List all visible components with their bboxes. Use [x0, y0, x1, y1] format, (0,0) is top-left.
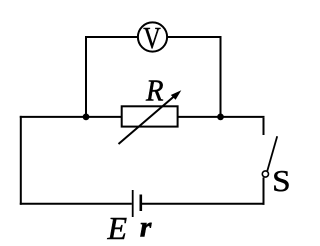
wire bottom right segment [142, 203, 265, 205]
wire voltmeter top left segment [85, 36, 139, 38]
wire left side of outer loop [20, 116, 22, 205]
wire right side lower (below switch) [263, 178, 265, 205]
battery cell short plate [140, 195, 143, 212]
switch S blade [267, 136, 277, 171]
svg-text:E: E [107, 210, 128, 246]
battery cell E r : long plate [132, 190, 134, 217]
wire right side upper stub (above switch) [263, 118, 265, 135]
label E [107, 210, 128, 246]
junction dot left node [83, 114, 90, 121]
wire main horizontal right of resistor [177, 116, 265, 118]
wire bottom left segment [20, 203, 132, 205]
wire voltmeter top right segment [166, 36, 222, 38]
voltmeter V meter circle [138, 22, 167, 51]
junction dot right node [217, 114, 224, 121]
label S [272, 163, 291, 198]
wire voltmeter branch left vertical [85, 36, 87, 117]
label r [140, 211, 152, 244]
rheostat arrow shaft [119, 95, 176, 144]
svg-text:r: r [140, 211, 152, 244]
svg-text:S: S [272, 163, 291, 198]
label R [145, 72, 163, 107]
resistor R box [122, 106, 178, 126]
rheostat arrow head [171, 90, 182, 100]
wire main horizontal left of resistor [20, 116, 123, 118]
svg-text:R: R [145, 72, 163, 107]
switch S pivot circle [262, 171, 268, 177]
svg-text:V: V [143, 20, 161, 55]
voltmeter letter V [143, 20, 161, 55]
wire voltmeter branch right vertical [220, 36, 222, 117]
